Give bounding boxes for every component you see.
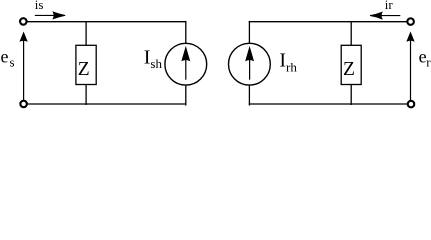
current annotation arrow ir xyxy=(370,12,400,19)
wire Z branch bottom (left) xyxy=(85,85,87,106)
svg-text:Z: Z xyxy=(78,59,90,80)
svg-text:rh: rh xyxy=(286,60,297,75)
wire Z branch top (left) xyxy=(85,21,87,45)
wire top rail right circuit xyxy=(249,21,408,23)
arrow inside source (left) xyxy=(182,48,189,80)
wire bottom rail right circuit xyxy=(249,103,408,105)
svg-text:sh: sh xyxy=(150,56,162,71)
wire Z branch top (right) xyxy=(350,21,352,45)
wire bottom rail left circuit xyxy=(27,103,187,105)
terminal bottom-right xyxy=(408,101,415,108)
voltage arrow e_s xyxy=(20,33,26,100)
svg-text:ir: ir xyxy=(385,0,394,12)
svg-text:s: s xyxy=(10,55,15,70)
arrow inside source (right) xyxy=(246,48,253,80)
voltage arrow e_r xyxy=(407,33,413,101)
svg-text:is: is xyxy=(35,0,44,12)
impedance Z box (right) xyxy=(341,45,361,84)
current annotation arrow is xyxy=(35,12,65,19)
terminal top-left xyxy=(20,18,27,25)
svg-text:e: e xyxy=(1,46,9,66)
impedance Z box (left) xyxy=(76,45,96,84)
wire current-source branch top (left) xyxy=(185,21,187,44)
terminal top-right xyxy=(407,18,414,25)
wire Z branch bottom (right) xyxy=(350,85,352,106)
wire current-source branch bottom (left) xyxy=(185,85,187,105)
terminal bottom-left xyxy=(20,101,27,108)
current source I_sh xyxy=(165,43,207,85)
wire current-source branch top (right) xyxy=(248,21,250,44)
wire top rail left circuit xyxy=(27,21,187,23)
svg-text:Z: Z xyxy=(343,59,355,80)
svg-text:r: r xyxy=(426,54,431,69)
wire current-source branch bottom (right) xyxy=(248,85,250,105)
current source I_rh xyxy=(229,43,271,85)
